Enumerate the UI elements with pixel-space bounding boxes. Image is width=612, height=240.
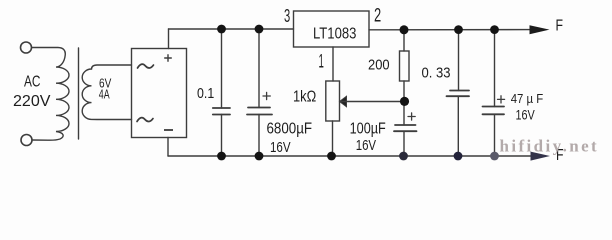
capacitor C1 0.1 lead bottom xyxy=(221,115,223,157)
svg-text:1: 1 xyxy=(319,52,324,73)
svg-text:AC: AC xyxy=(24,74,41,91)
svg-text:16V: 16V xyxy=(356,137,376,154)
junction dot top 6800uF xyxy=(255,25,264,34)
junction dot bottom 0.33 xyxy=(454,152,463,161)
capacitor C4 0.33 lead top xyxy=(458,30,460,91)
junction dot top 0.1 xyxy=(217,25,226,34)
capacitor C4 0.33 plates xyxy=(450,90,469,92)
resistor R1 200 lead bottom xyxy=(403,81,405,102)
capacitor C3 100uF lead bottom xyxy=(403,131,405,156)
svg-text:0.1: 0.1 xyxy=(197,85,214,102)
junction dot bottom 6800uF xyxy=(255,152,264,161)
svg-text:200: 200 xyxy=(368,56,390,73)
svg-text:1kΩ: 1kΩ xyxy=(293,88,316,105)
wire bottom rail xyxy=(168,155,534,157)
transformer T1 secondary winding xyxy=(82,65,131,120)
svg-text:2: 2 xyxy=(374,6,381,27)
potentiometer RP1 wiper arrow xyxy=(340,96,347,107)
wire pin1 to pot xyxy=(332,47,334,81)
rectifier AC symbol top xyxy=(138,64,154,68)
capacitor C5 47uF lead bottom xyxy=(494,114,496,156)
capacitor C3 100uF lead top xyxy=(403,102,405,126)
svg-text:3: 3 xyxy=(284,6,290,26)
rectifier minus mark xyxy=(164,129,173,131)
transformer T1 primary terminal bottom xyxy=(21,135,32,146)
svg-text:hifidiy.net: hifidiy.net xyxy=(500,137,600,156)
wire top rail left (rectifier to LT1083 pin3) xyxy=(169,28,294,30)
potentiometer RP1 1k body xyxy=(326,81,340,121)
capacitor C5 polarity plus xyxy=(498,96,505,103)
junction dot top 200 xyxy=(400,25,409,34)
svg-text:F: F xyxy=(556,18,564,35)
transformer T1 core xyxy=(78,48,80,139)
wire rectifier - output down xyxy=(167,138,169,157)
junction dot bottom 47uF xyxy=(490,152,499,161)
rectifier plus mark xyxy=(164,54,172,62)
wire pot bottom xyxy=(332,121,334,156)
svg-text:LT1083: LT1083 xyxy=(313,26,356,43)
svg-text:16V: 16V xyxy=(270,139,291,156)
wire wiper to node xyxy=(340,101,404,103)
bridge rectifier block xyxy=(132,49,187,138)
junction dot bottom 100uF xyxy=(399,152,408,161)
capacitor C2 6800uF plates xyxy=(248,107,270,109)
capacitor C2 6800uF lead bottom xyxy=(258,115,260,157)
capacitor C3 100uF plates xyxy=(395,124,416,126)
capacitor C1 0.1 lead top xyxy=(221,29,223,108)
svg-text:47 µ F: 47 µ F xyxy=(511,91,544,106)
svg-text:0. 33: 0. 33 xyxy=(422,64,451,81)
capacitor C2 6800uF lead top xyxy=(258,29,260,108)
capacitor C4 0.33 lead bottom xyxy=(457,96,459,156)
capacitor C3 polarity plus xyxy=(408,113,415,120)
transformer T1 primary terminal top xyxy=(21,42,32,53)
capacitor C1 0.1 plates xyxy=(213,107,230,109)
junction dot wiper node xyxy=(400,97,409,106)
output arrow bottom xyxy=(531,152,551,161)
junction dot bottom pot xyxy=(327,152,336,161)
wire top rail right (LT1083 pin2 to output arrow) xyxy=(369,29,534,31)
regulator U1 LT1083 body xyxy=(294,11,370,47)
resistor R1 200 lead top xyxy=(403,30,405,51)
junction dot top 47uF xyxy=(490,25,499,34)
svg-text:4A: 4A xyxy=(99,87,110,102)
junction dot bottom 0.1 xyxy=(217,152,226,161)
transformer T1 primary winding xyxy=(32,48,69,141)
svg-text:100µF: 100µF xyxy=(350,120,386,137)
capacitor C5 47uF plates xyxy=(483,106,505,108)
resistor R1 200 body xyxy=(400,51,410,81)
svg-text:220V: 220V xyxy=(13,93,51,110)
junction dot top 0.33 xyxy=(454,25,463,34)
svg-text:16V: 16V xyxy=(516,108,535,123)
output arrow top xyxy=(530,25,550,34)
rectifier AC symbol bottom xyxy=(137,118,153,122)
capacitor C2 polarity plus xyxy=(263,92,270,99)
wire rectifier + output up xyxy=(168,29,170,49)
svg-text:6800µF: 6800µF xyxy=(267,121,313,138)
capacitor C5 47uF lead top xyxy=(494,30,496,107)
